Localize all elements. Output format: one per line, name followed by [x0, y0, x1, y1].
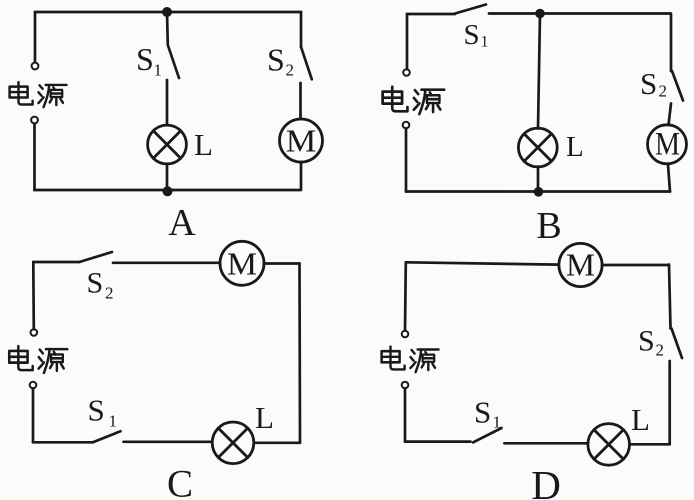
motor M, C [220, 241, 264, 285]
svg-text:B: B [536, 205, 561, 247]
svg-text:2: 2 [286, 61, 295, 80]
wire: C top rail right of motor [264, 262, 300, 265]
wire: B bottom rail [406, 190, 670, 193]
wire: A below motor [300, 162, 303, 190]
svg-text:2: 2 [656, 341, 665, 360]
svg-text:M: M [286, 123, 317, 159]
lamp L, A [148, 125, 187, 164]
label 电源, C [9, 346, 67, 373]
motor M, B [648, 125, 687, 164]
svg-text:S: S [640, 66, 657, 101]
svg-text:2: 2 [659, 82, 668, 101]
svg-text:D: D [531, 462, 561, 500]
wire: B right vertical upper [670, 15, 673, 71]
battery terminal lower, B [403, 122, 410, 129]
node: A top junction [162, 7, 172, 17]
battery terminal lower, C [30, 382, 37, 389]
svg-text:2: 2 [105, 284, 114, 303]
svg-text:S: S [474, 395, 491, 430]
wire: C top rail right of S2 [113, 261, 220, 264]
svg-text:C: C [167, 463, 193, 500]
svg-text:S: S [638, 325, 655, 358]
wire: B top rail right of S1 [489, 12, 671, 15]
wire: A right vertical upper [300, 12, 303, 47]
svg-text:S: S [136, 41, 154, 77]
switch S2 blade, B [672, 71, 683, 101]
lamp L, D [588, 424, 630, 466]
switch S2 blade, A [301, 48, 312, 80]
svg-text:M: M [566, 247, 595, 283]
battery terminal upper, D [402, 331, 409, 338]
node: B bottom junction [534, 187, 544, 197]
svg-text:A: A [168, 202, 196, 244]
svg-text:S: S [87, 267, 104, 300]
switch S1 stub + blade, A [167, 12, 179, 78]
node: A bottom junction [163, 186, 173, 196]
lamp L, B [518, 128, 557, 167]
wire: B right branch below S2 [669, 104, 672, 126]
svg-text:1: 1 [493, 413, 502, 432]
svg-text:L: L [566, 131, 584, 163]
wire: B below motor [668, 165, 670, 192]
label 电源, A [10, 82, 67, 107]
switch S2 blade, D [672, 329, 683, 359]
svg-text:S: S [267, 42, 285, 78]
battery terminal upper, B [403, 69, 410, 76]
svg-text:1: 1 [481, 34, 489, 51]
battery terminal (open circle) upper, A [32, 63, 39, 70]
wire: D top rail left [406, 262, 559, 264]
wire: D top rail right [602, 264, 669, 267]
motor M, A [280, 119, 323, 162]
wire: B top rail left of S1 [407, 13, 455, 16]
svg-text:M: M [655, 127, 680, 163]
lamp L, C [212, 422, 254, 464]
wire: C bottom rail left [33, 441, 93, 444]
battery terminal lower, D [402, 382, 409, 389]
battery terminal (open circle) lower, A [31, 117, 38, 124]
wire: D left vertical upper [404, 262, 407, 330]
svg-text:L: L [194, 127, 213, 162]
motor M, D [559, 243, 602, 286]
switch S1 blade, D [473, 428, 502, 442]
svg-text:L: L [255, 400, 274, 435]
wire: B middle branch from junction to lamp [538, 14, 540, 129]
node: B top junction [535, 9, 545, 19]
switch S1 blade, B [455, 5, 486, 14]
wire: D bottom rail mid [504, 442, 588, 445]
wire: C left vertical lower [32, 389, 35, 443]
wire: D right vertical upper [669, 265, 671, 329]
wire: C right vertical [298, 264, 301, 443]
wire: A left vertical upper [34, 12, 37, 62]
wire: B below lamp [537, 167, 540, 189]
wire: A below lamp [166, 164, 169, 186]
svg-text:1: 1 [109, 412, 118, 431]
wire: A bottom rail [35, 189, 301, 192]
wire: A middle branch below S1 [166, 80, 169, 125]
label 电源, B [383, 87, 445, 115]
wire: C bottom rail mid [124, 440, 213, 443]
svg-text:M: M [227, 245, 257, 281]
label 电源, D [382, 347, 439, 373]
wire: B left vertical lower [405, 129, 408, 192]
wire: D bottom rail right [630, 443, 670, 446]
wire: D bottom rail left [405, 440, 471, 443]
svg-text:S: S [88, 393, 105, 428]
wire: D right vertical lower [668, 361, 671, 444]
svg-text:S: S [464, 19, 480, 51]
wire: C top rail left of S2 [33, 261, 79, 264]
battery terminal upper, C [31, 329, 38, 336]
wire: C bottom rail right [254, 441, 300, 444]
wire: D left vertical lower [404, 389, 407, 442]
svg-text:1: 1 [154, 61, 163, 80]
wire: A left vertical lower [33, 124, 36, 190]
wire: C left vertical upper [32, 262, 35, 329]
switch S1 blade, C [93, 431, 121, 442]
wire: A right branch below S2 [299, 83, 302, 119]
svg-text:L: L [631, 402, 650, 437]
switch S2 blade, C [79, 252, 112, 262]
wire: A top rail [35, 11, 301, 14]
wire: B left vertical upper [406, 14, 409, 69]
